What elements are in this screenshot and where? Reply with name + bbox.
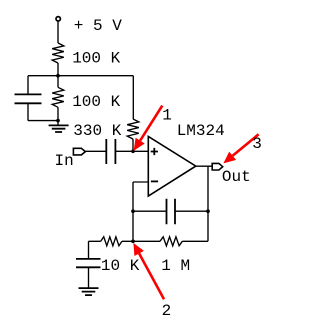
- svg-text:1: 1: [162, 106, 172, 124]
- svg-text:1 M: 1 M: [161, 257, 190, 275]
- svg-text:3: 3: [252, 135, 262, 153]
- svg-text:Out: Out: [222, 168, 251, 186]
- svg-text:100 K: 100 K: [72, 93, 120, 111]
- svg-text:+ 5 V: + 5 V: [74, 17, 122, 35]
- svg-text:2: 2: [162, 302, 172, 320]
- svg-text:LM324: LM324: [177, 122, 225, 140]
- svg-text:100 K: 100 K: [72, 49, 120, 67]
- svg-text:330 K: 330 K: [73, 122, 121, 140]
- svg-text:10 K: 10 K: [101, 257, 140, 275]
- svg-text:In: In: [55, 152, 74, 170]
